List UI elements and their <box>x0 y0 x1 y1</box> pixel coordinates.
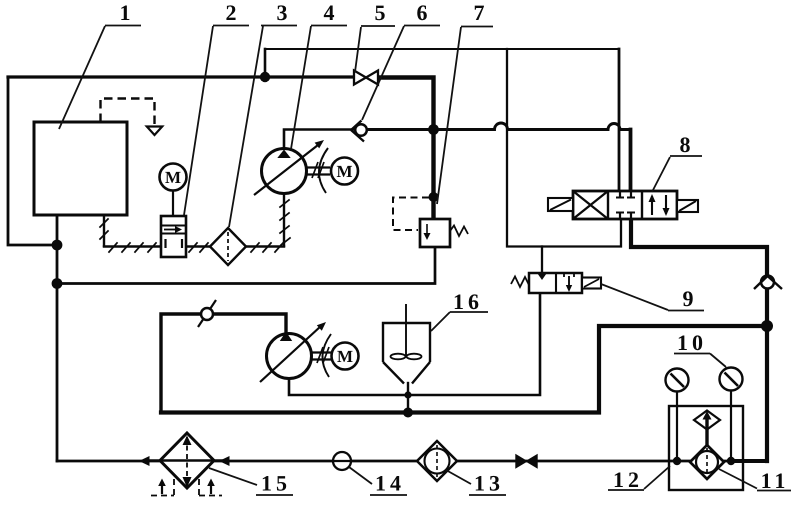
wire gauge 10a stem <box>676 391 678 461</box>
wire from check valve 6 to junction (433,129) then east with hops over x=507 and x=619, drop to valve 8 P port <box>367 123 631 129</box>
directional valve 8 body <box>573 191 677 219</box>
wire bottom return line thick segment into riser x=767 <box>731 459 767 463</box>
junction dot (433,197) and dashed pilot of valve 7 <box>393 198 429 231</box>
node (265,77) <box>260 72 270 82</box>
svg-text:9: 9 <box>683 286 694 311</box>
svg-text:14: 14 <box>375 471 405 496</box>
node (57,283) <box>52 278 63 289</box>
valve 8 left solenoid tab <box>548 198 573 211</box>
svg-text:2: 2 <box>226 0 237 25</box>
leader and underline of label 10 <box>674 354 726 368</box>
valve 8 centre position port stubs <box>620 191 631 219</box>
node (57,245) <box>52 240 63 251</box>
svg-text:11: 11 <box>761 468 790 493</box>
wire main supply line y=77 from left frame to valve 5 <box>8 75 354 78</box>
wire bottom return line y=461 <box>57 460 731 463</box>
svg-text:4: 4 <box>324 0 335 25</box>
motor M of pump 2 <box>160 164 187 191</box>
svg-text:6: 6 <box>417 0 428 25</box>
wire left frame bypass: down left edge and over to tank drop <box>8 77 57 245</box>
box 1 (load / machine) <box>34 122 127 215</box>
leader and underline of label 14 <box>349 467 407 495</box>
leader and underline of label 4 <box>291 26 347 150</box>
node (767,326) <box>761 320 773 332</box>
svg-text:M: M <box>165 168 181 187</box>
gauge 10b <box>720 368 743 391</box>
flow meter 14 <box>333 452 351 470</box>
svg-text:7: 7 <box>474 0 485 25</box>
leader and underline of label 3 <box>229 26 297 228</box>
leader and underline of label 7 <box>437 27 493 205</box>
pump 4 rotation arc <box>319 148 328 193</box>
svg-text:16: 16 <box>453 289 483 314</box>
svg-text:M: M <box>337 347 353 366</box>
svg-text:13: 13 <box>474 471 504 496</box>
svg-text:5: 5 <box>375 0 386 25</box>
relief valve 7 body <box>420 219 450 247</box>
motor M of pump 4 <box>331 158 358 185</box>
leader and underline of label 8 <box>652 156 702 192</box>
wire left vertical drop from box 1 bottom to bottom return line <box>56 214 59 461</box>
node gauge 10a tap <box>673 457 681 465</box>
leader and underline of label 1 <box>59 26 141 130</box>
svg-text:10: 10 <box>677 330 707 355</box>
leader and underline of label 2 <box>184 26 249 216</box>
check valve 6 <box>355 124 367 136</box>
motor M of pump 2b <box>332 343 359 370</box>
valve 9 solenoid tab <box>582 278 601 289</box>
valve 8 right position flow arrows <box>651 196 653 215</box>
valve 8 left position X <box>573 191 608 219</box>
valve 9 body <box>529 273 582 293</box>
wire branch from y=246 line down to valve 9 inlet <box>541 247 543 274</box>
wire tank 16 funnel outlet drop to return line <box>407 383 409 413</box>
wire drain line y=283.5 from left drop to valve 7 bottom <box>57 247 435 284</box>
wire thick line from valve 5 right to vertical x=433.5 down to valve 7 <box>377 78 434 220</box>
wire thick: valve 8 B port down, east and down x=767 through check valve 11 to bottom line <box>631 219 767 461</box>
leader and underline of label 11 <box>719 469 791 491</box>
pump 2 body <box>161 216 186 257</box>
valve 9 spring <box>511 277 529 288</box>
dashed pilot line from box 1 top with vent arrow <box>101 99 155 125</box>
wire vertical x=507 from top line down, corner east to valve 8 bottom-left port <box>507 49 621 247</box>
wire top thin line from node above valve 5 to right drop <box>265 48 619 50</box>
pump 4 variable displacement arrow <box>254 145 318 195</box>
pump 2b circle (circulation pump) <box>267 334 312 379</box>
node (433,129) <box>428 124 439 135</box>
shut-off bowtie valve before box 12 <box>516 455 527 468</box>
cooler 15 diamond <box>160 433 214 488</box>
pump 4 shaft to motor <box>307 168 331 175</box>
wire thick drop x=630.5 into valve 8 top right port <box>629 130 633 192</box>
hatch ticks on suction line <box>100 200 290 252</box>
node (433,197) <box>429 192 439 202</box>
filter 3 diamond <box>210 228 246 265</box>
bypass arrow and small diamond inside box 12 <box>694 411 720 430</box>
valve 5 shut-off bowtie <box>354 71 366 85</box>
wire drop from top line to main line at node (265,77) <box>264 49 267 77</box>
tank 16 with stirrer <box>383 323 430 362</box>
svg-text:M: M <box>336 162 352 181</box>
leader and underline of label 12 <box>608 466 670 490</box>
valve 8 right solenoid tab <box>677 200 698 212</box>
svg-text:15: 15 <box>261 471 291 496</box>
leader and underline of label 6 <box>362 26 440 121</box>
svg-text:8: 8 <box>680 132 691 157</box>
node (408,395) <box>404 391 411 398</box>
pump 2b shaft to motor <box>312 353 332 360</box>
flow arrows on return line at cooler 15 <box>139 456 150 466</box>
cooler 15 air flow arrows with dashed ducts <box>161 483 163 494</box>
wire circulation loop: left vertical x=163 up, top y=314 east to pump 2b inlet riser <box>161 314 286 413</box>
wire pump 4 outlet riser and line to check valve 6 <box>284 130 355 151</box>
wire thick return: from node (767,326) west, down x=599, west along y=412.5 <box>161 326 767 413</box>
filter 11 diamond with circle <box>690 445 724 479</box>
leader and underline of label 15 <box>209 468 293 495</box>
node gauge 10b tap <box>727 457 735 465</box>
gauge 10a <box>666 369 689 392</box>
leader and underline of label 16 <box>431 312 488 331</box>
wire gauge 10b stem <box>730 390 732 461</box>
check valve 11a on riser x=767 <box>761 276 774 289</box>
leader and underline of label 5 <box>355 26 395 72</box>
pump 4 outlet triangle <box>277 150 290 159</box>
svg-text:12: 12 <box>613 467 643 492</box>
svg-text:3: 3 <box>277 0 288 25</box>
relief valve 7 spring <box>450 226 468 237</box>
wire vertical x=619 from top line to valve 8 top-left port <box>618 49 621 191</box>
wire pump 2b outlet down, east along y=395, up to valve 9 bottom <box>289 293 540 395</box>
node (408,412) <box>403 408 413 418</box>
check valve in circulation loop <box>198 300 216 327</box>
leader and underline of label 13 <box>446 470 506 495</box>
leader and underline of label 9 <box>601 284 704 311</box>
filter 13 diamond with circle <box>417 441 457 481</box>
box 12 accumulator/filter station outline <box>669 406 743 490</box>
pump 4 circle <box>262 149 307 194</box>
svg-text:1: 1 <box>120 0 131 25</box>
hatched suction line from box 1 drain to filter 3 and pump 4 inlet <box>103 215 105 246</box>
